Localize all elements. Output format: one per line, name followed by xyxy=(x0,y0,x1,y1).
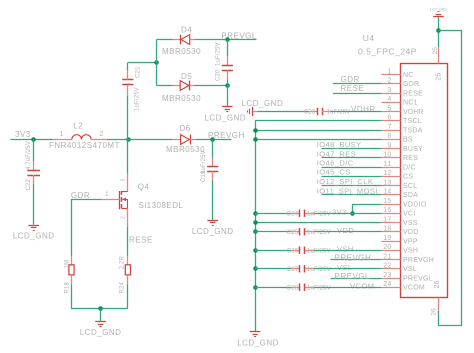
U4 pin 17 VSS xyxy=(381,222,400,224)
wire C24 to pin16 xyxy=(314,213,381,215)
svg-text:RESE: RESE xyxy=(129,236,153,245)
svg-text:RESE: RESE xyxy=(341,84,365,93)
svg-text:9: 9 xyxy=(387,142,391,149)
svg-text:GDR: GDR xyxy=(341,75,360,84)
svg-text:IO47_RES: IO47_RES xyxy=(317,149,356,158)
svg-text:3: 3 xyxy=(387,87,391,94)
wire ground to pin25 xyxy=(438,17,440,47)
U4 pin 1 NC xyxy=(381,74,400,76)
capacitor C25 xyxy=(291,231,300,233)
svg-text:2: 2 xyxy=(387,78,391,85)
node junction ground rail xyxy=(98,306,103,311)
net IO11_SPI_MOSI wire to pin14 xyxy=(322,194,382,196)
resistor R24 2.2R xyxy=(127,256,129,265)
wire Q4 source to R24 xyxy=(127,227,129,256)
capacitor C22 xyxy=(33,161,35,170)
svg-text:MBR0530: MBR0530 xyxy=(162,94,201,103)
svg-text:C26: C26 xyxy=(287,248,299,254)
svg-text:8: 8 xyxy=(387,133,391,140)
ground LCD_GND below C20 xyxy=(204,107,246,123)
svg-text:TSDA: TSDA xyxy=(403,127,423,134)
capacitor C23 xyxy=(309,111,318,113)
U4 pin 12 CS xyxy=(381,176,400,178)
node junction 3V3 pin16 xyxy=(350,211,355,216)
svg-text:VDD: VDD xyxy=(403,229,419,236)
svg-text:LCD_GND: LCD_GND xyxy=(237,338,279,347)
wire LCD_GND bus vertical xyxy=(255,121,257,331)
svg-text:PREVGH: PREVGH xyxy=(403,257,434,264)
wire bus to C24 xyxy=(255,213,291,215)
net IO12_SPI_CLK wire to pin13 xyxy=(322,185,382,187)
node junction bus pin24 xyxy=(253,285,258,290)
wire C22 to ground xyxy=(33,184,35,225)
svg-text:VSL: VSL xyxy=(337,263,353,272)
svg-text:1: 1 xyxy=(105,191,109,198)
svg-text:IO11_SPI_MOSI: IO11_SPI_MOSI xyxy=(317,186,378,195)
U4 pin 3 RESE xyxy=(381,93,400,95)
svg-text:LCD_GND: LCD_GND xyxy=(192,227,234,236)
wire R18 to ground rail xyxy=(71,284,73,308)
U4 pin 24 VCOM xyxy=(381,287,400,289)
U4 pin 10 RES xyxy=(381,157,400,159)
svg-text:C20: C20 xyxy=(216,69,222,81)
wire bus to C26 xyxy=(255,250,291,252)
svg-text:U4: U4 xyxy=(363,33,375,43)
svg-text:26: 26 xyxy=(434,280,441,288)
svg-text:Si1308EDL: Si1308EDL xyxy=(139,201,184,210)
node junction bus pin20 xyxy=(253,248,258,253)
svg-text:LCD_GND: LCD_GND xyxy=(430,7,447,11)
diode D4 MBR0530 xyxy=(173,39,181,41)
U4 pin 13 SCL xyxy=(381,185,400,187)
svg-text:IO48_BUSY: IO48_BUSY xyxy=(317,140,362,149)
svg-text:LCD_GND: LCD_GND xyxy=(242,99,284,108)
wire PREVGH down to C19 xyxy=(212,139,214,157)
U4 pin 15 VDDIO xyxy=(381,204,400,206)
capacitor C26 xyxy=(291,250,300,252)
svg-text:VSH: VSH xyxy=(337,244,354,253)
node junction bus pin17 xyxy=(253,220,258,225)
U4 pin 18 VDD xyxy=(381,231,400,233)
svg-text:16: 16 xyxy=(383,207,391,214)
U4 pin 9 BUSY xyxy=(381,148,400,150)
wire 3V3 to pin15 VDDIO xyxy=(353,204,382,206)
svg-text:3V3: 3V3 xyxy=(15,130,31,139)
wire SW up to C21 xyxy=(127,96,129,140)
wire 3V3 vertical pin15-pin16 xyxy=(352,204,354,213)
svg-text:1: 1 xyxy=(387,68,391,75)
svg-text:D6: D6 xyxy=(180,124,191,133)
node junction bus pin7 xyxy=(253,128,258,133)
net IO46_D/C wire to pin11 xyxy=(322,167,382,169)
node junction 3V3/C22 xyxy=(31,137,36,142)
svg-text:VSL: VSL xyxy=(403,266,417,273)
wire X to D5 xyxy=(157,85,173,87)
svg-text:0.5_FPC_24P: 0.5_FPC_24P xyxy=(358,47,417,57)
svg-text:LCD_GND: LCD_GND xyxy=(13,232,55,241)
svg-text:VSH: VSH xyxy=(403,248,418,255)
svg-text:1uF/25V: 1uF/25V xyxy=(135,87,141,111)
svg-text:24: 24 xyxy=(383,281,391,288)
wire D6 to PREVGH xyxy=(195,139,231,141)
wire C20 to ground xyxy=(227,79,229,106)
wire to ground xyxy=(100,308,102,321)
svg-text:2.2R: 2.2R xyxy=(120,256,126,270)
net IO45_CS wire to pin12 xyxy=(322,176,382,178)
wire L2 to node SW xyxy=(107,139,128,141)
node junction PREVGH/C19 xyxy=(210,137,215,142)
svg-text:2: 2 xyxy=(99,131,103,138)
node junction bus pin22 xyxy=(253,266,258,271)
svg-text:1uF/25V: 1uF/25V xyxy=(307,248,331,254)
svg-text:6: 6 xyxy=(387,115,391,122)
svg-text:CS: CS xyxy=(403,174,413,181)
U4 pin 23 PREVGL xyxy=(381,278,400,280)
wire right side down xyxy=(461,31,463,326)
capacitor C20 xyxy=(227,57,229,66)
svg-text:VCOM: VCOM xyxy=(350,281,374,290)
svg-text:15: 15 xyxy=(383,198,391,205)
wire bus to pin6 TSCL xyxy=(255,120,381,122)
svg-text:GDR: GDR xyxy=(403,81,419,88)
wire bus to pin7 TSDA xyxy=(255,130,381,132)
svg-text:PREVGL: PREVGL xyxy=(335,272,371,281)
wire SW3V3 down to C22 xyxy=(33,139,35,161)
wire C23 to pin5 xyxy=(331,111,382,113)
wire C26 to pin20 xyxy=(314,250,381,252)
svg-text:L2: L2 xyxy=(73,121,83,130)
diode D5 MBR0530 xyxy=(173,85,181,87)
wire C28 to pin24 xyxy=(314,287,381,289)
svg-text:LCD_GND: LCD_GND xyxy=(80,328,122,337)
svg-text:C27: C27 xyxy=(287,267,299,273)
node junction bus pin18 xyxy=(253,229,258,234)
svg-text:SDA: SDA xyxy=(403,192,418,199)
svg-text:3: 3 xyxy=(121,179,127,182)
svg-text:NC1: NC1 xyxy=(403,100,418,107)
svg-text:R24: R24 xyxy=(120,282,126,294)
svg-text:22: 22 xyxy=(383,263,391,270)
svg-text:RESE: RESE xyxy=(403,90,423,97)
U4 pin 21 PREVGH xyxy=(381,259,400,261)
svg-text:5: 5 xyxy=(387,105,391,112)
node junction pin25/pin26 net xyxy=(436,28,441,33)
svg-text:4.7uF/25V: 4.7uF/25V xyxy=(26,141,32,170)
svg-text:19: 19 xyxy=(383,235,391,242)
wire bus to C28 xyxy=(255,287,291,289)
svg-text:1uF/25V: 1uF/25V xyxy=(201,150,207,174)
svg-text:BS: BS xyxy=(403,137,413,144)
U4 pin 16 VCI xyxy=(381,213,400,215)
wire bus to pin17 VSS xyxy=(255,222,381,224)
svg-text:23: 23 xyxy=(383,272,391,279)
wire 3V3 to L2 xyxy=(11,139,54,141)
net RESE wire to pin3 xyxy=(333,93,382,95)
svg-text:2: 2 xyxy=(121,216,127,219)
svg-text:C22: C22 xyxy=(26,179,32,191)
net GDR wire to pin2 xyxy=(333,83,382,85)
svg-text:GDR: GDR xyxy=(71,191,90,200)
wire junction right xyxy=(438,30,462,32)
wire D5 to ground rail xyxy=(195,85,227,87)
svg-text:7: 7 xyxy=(387,124,391,131)
svg-text:MBR0530: MBR0530 xyxy=(162,47,201,56)
wire C19 to ground xyxy=(212,180,214,219)
U4 pin 8 BS xyxy=(381,139,400,141)
node junction bus pin16 xyxy=(253,211,258,216)
wire bus to C27 xyxy=(255,268,291,270)
wire C21 to node X xyxy=(127,63,129,71)
svg-text:3V3: 3V3 xyxy=(332,207,347,216)
net PREVGL wire to pin23 xyxy=(331,278,382,280)
svg-text:10: 10 xyxy=(383,152,391,159)
svg-text:C23: C23 xyxy=(304,110,316,116)
ground LCD_GND bottom left xyxy=(80,322,122,338)
svg-text:LCD_GND: LCD_GND xyxy=(204,114,246,123)
wire PREVGL down to C20 xyxy=(227,39,229,56)
node junction D5/C20 rail xyxy=(225,83,230,88)
svg-text:1uF/25V: 1uF/25V xyxy=(307,211,331,217)
U4 pin 6 TSCL xyxy=(381,120,400,122)
svg-text:C24: C24 xyxy=(287,211,299,217)
svg-text:PREVGL: PREVGL xyxy=(403,275,433,282)
wire bottom to pin26 xyxy=(438,325,462,327)
U4 pin 2 GDR xyxy=(381,83,400,85)
svg-text:NC: NC xyxy=(403,72,414,79)
net IO48_BUSY wire to pin9 xyxy=(322,148,382,150)
svg-text:17: 17 xyxy=(383,216,391,223)
svg-text:R18: R18 xyxy=(64,282,70,294)
wire R24 to ground rail xyxy=(127,284,129,308)
resistor R18 1M xyxy=(71,256,73,265)
U4 pin 14 SDA xyxy=(381,194,400,196)
wire GDR to Q4 gate xyxy=(71,199,101,201)
svg-text:4: 4 xyxy=(387,96,391,103)
U4 pin 4 NC1 xyxy=(381,102,400,104)
svg-text:VCOM: VCOM xyxy=(403,285,425,292)
node junction X xyxy=(154,60,159,65)
U4 pin 11 D/C xyxy=(381,167,400,169)
svg-text:MBR0530: MBR0530 xyxy=(166,145,205,154)
wire bus to pin8 BS xyxy=(255,139,381,141)
svg-text:11: 11 xyxy=(384,161,392,168)
ground LCD_GND below C19 xyxy=(192,221,234,236)
wire X to D4 xyxy=(157,39,173,41)
svg-text:IO12_SPI_CLK: IO12_SPI_CLK xyxy=(317,177,374,186)
svg-text:C19: C19 xyxy=(201,170,207,182)
svg-text:D4: D4 xyxy=(181,26,192,35)
svg-text:VPP: VPP xyxy=(403,238,418,245)
svg-text:RES: RES xyxy=(403,155,418,162)
wire D4 to PREVGL xyxy=(195,39,257,41)
capacitor C24 xyxy=(291,213,300,215)
svg-text:1uF/25V: 1uF/25V xyxy=(327,110,351,116)
U4 pin 22 VSL xyxy=(381,268,400,270)
U4 pin 25 stub xyxy=(438,47,440,64)
svg-text:VDHR: VDHR xyxy=(403,109,424,116)
wire SW to D6 xyxy=(128,139,173,141)
svg-text:C28: C28 xyxy=(287,285,299,291)
capacitor C21 xyxy=(127,86,129,96)
wire C27 to pin22 xyxy=(314,268,381,270)
U4 pin 26 stub xyxy=(438,298,440,312)
U4 pin 7 TSDA xyxy=(381,130,400,132)
ground LCD_GND bottom bus xyxy=(237,332,279,348)
connector U4 0.5_FPC_24P outline xyxy=(401,64,448,298)
svg-text:D5: D5 xyxy=(181,72,192,81)
capacitor C28 xyxy=(291,287,300,289)
svg-text:14: 14 xyxy=(383,189,391,196)
svg-text:Q4: Q4 xyxy=(138,183,150,192)
svg-text:18: 18 xyxy=(383,226,391,233)
wire supply to C23 xyxy=(253,111,258,113)
svg-text:1: 1 xyxy=(60,131,64,138)
wire bus to C25 xyxy=(255,231,291,233)
node junction bus pin8 xyxy=(253,137,258,142)
svg-text:IO45_CS: IO45_CS xyxy=(317,168,351,177)
transistor Q4 Si1308EDL xyxy=(101,174,128,227)
svg-text:VDDIO: VDDIO xyxy=(403,201,427,208)
node junction SW (L2/C21/Q4/D6) xyxy=(126,137,131,142)
net PREVGH wire to pin21 xyxy=(331,259,382,261)
svg-text:C21: C21 xyxy=(136,66,142,78)
net IO47_RES wire to pin10 xyxy=(322,157,382,159)
svg-text:VDHR: VDHR xyxy=(351,105,376,114)
svg-text:C25: C25 xyxy=(287,230,299,236)
svg-text:12: 12 xyxy=(383,170,391,177)
svg-text:IO46_D/C: IO46_D/C xyxy=(317,159,354,168)
ground LCD_GND below C22 xyxy=(13,226,55,241)
svg-text:25: 25 xyxy=(436,73,443,81)
svg-text:20: 20 xyxy=(383,244,391,251)
U4 pin 19 VPP xyxy=(381,241,400,243)
node junction PREVGL/C20 xyxy=(225,37,230,42)
svg-text:1uF/25V: 1uF/25V xyxy=(216,42,222,66)
wire GDR down to R18 xyxy=(71,199,73,256)
ground LCD_GND top right xyxy=(430,7,447,16)
svg-text:13: 13 xyxy=(383,179,391,186)
supply LCD_GND left-pointing at C23 xyxy=(248,107,253,116)
capacitor C27 xyxy=(291,268,300,270)
svg-text:1uF/25V: 1uF/25V xyxy=(307,285,331,291)
svg-text:VDD: VDD xyxy=(337,226,354,235)
svg-text:VSS: VSS xyxy=(403,220,418,227)
wire C25 to pin18 xyxy=(314,231,381,233)
U4 pin 5 VDHR xyxy=(381,111,400,113)
wire node X vertical xyxy=(156,39,158,85)
svg-text:FNR4012S470MT: FNR4012S470MT xyxy=(49,141,120,150)
svg-text:25: 25 xyxy=(432,47,439,55)
svg-text:21: 21 xyxy=(383,253,391,260)
svg-text:TSCL: TSCL xyxy=(403,118,422,125)
svg-text:VCI: VCI xyxy=(403,211,415,218)
capacitor C19 xyxy=(212,158,214,167)
svg-text:SCL: SCL xyxy=(403,183,417,190)
svg-text:PREVGH: PREVGH xyxy=(335,254,372,263)
svg-text:D/C: D/C xyxy=(403,164,416,171)
diode D6 MBR0530 xyxy=(173,139,181,141)
wire SW down to Q4 drain xyxy=(127,139,129,173)
svg-text:1M: 1M xyxy=(64,260,70,269)
inductor L2 xyxy=(53,135,107,140)
svg-text:BUSY: BUSY xyxy=(403,146,423,153)
U4 pin 20 VSH xyxy=(381,250,400,252)
svg-text:26: 26 xyxy=(431,308,438,316)
